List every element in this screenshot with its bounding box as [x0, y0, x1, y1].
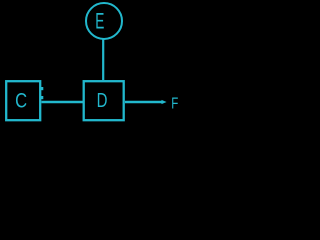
- node C (square): [6, 81, 40, 120]
- wire E to D: [102, 39, 104, 80]
- svg-text:D: D: [97, 89, 108, 112]
- svg-text:E: E: [95, 8, 104, 33]
- node D (square): [84, 81, 124, 120]
- node E (circle): [86, 3, 122, 39]
- wire C to D: [42, 101, 84, 103]
- svg-text:F: F: [171, 93, 178, 111]
- wire D to F: [125, 101, 162, 103]
- arrowhead at F: [162, 100, 167, 104]
- tick lower on C right edge: [41, 96, 43, 99]
- tick upper on C right edge: [41, 87, 43, 90]
- svg-text:C: C: [15, 90, 27, 113]
